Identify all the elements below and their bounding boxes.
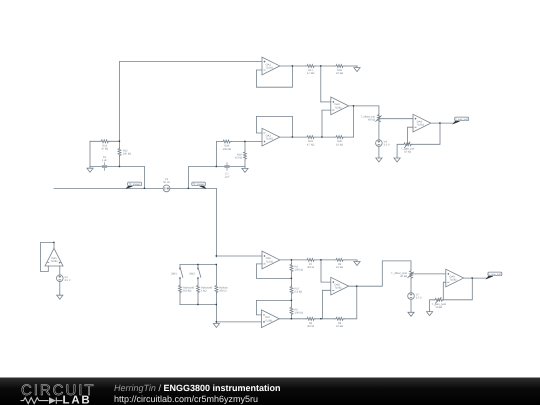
ground — [242, 167, 248, 173]
switch SW2 — [197, 265, 199, 268]
node OA9 output feedback — [472, 277, 473, 278]
resistor R8 — [335, 317, 344, 320]
resistor R9 — [335, 258, 344, 261]
wire buffer2 input — [245, 141, 262, 143]
node R6-R8 to OA8 inverting — [320, 318, 321, 319]
svg-text:1 μF: 1 μF — [102, 159, 108, 162]
wire opC output — [349, 261, 411, 286]
svg-text:http://circuitlab.com/cr5mh6yz: http://circuitlab.com/cr5mh6yzmy5ru — [114, 394, 258, 404]
svg-text:SW2: SW2 — [189, 273, 195, 276]
wire output buffer2 — [280, 136, 306, 138]
wire — [90, 140, 120, 142]
label OA8 — [334, 284, 342, 290]
svg-text:HerringTin / ENGG3800 instrume: HerringTin / ENGG3800 instrumentation — [114, 383, 280, 393]
resistor R29 vertical — [244, 151, 247, 160]
wire junction down to opC plus — [321, 260, 331, 282]
node right RC ground rail — [216, 166, 217, 167]
node OA7 output — [291, 318, 292, 319]
label SW2 — [189, 273, 195, 276]
node bridge top rail right — [216, 264, 217, 265]
svg-text:10 kΩ: 10 kΩ — [336, 325, 343, 328]
wire output B — [279, 318, 306, 320]
wire rail down to bridge — [215, 188, 217, 257]
flag V_amp_out1 — [454, 117, 469, 123]
wire pot left to ground — [430, 300, 435, 310]
label R27 — [295, 288, 303, 294]
node OA3 output feedback — [353, 105, 354, 106]
right RC network wire — [216, 141, 245, 143]
node OA7 feedback — [291, 300, 292, 301]
svg-text:50 Hz: 50 Hz — [163, 181, 170, 184]
wire feedback A — [256, 264, 291, 279]
wire to ground — [344, 65, 357, 67]
wire opD minus — [443, 282, 446, 300]
wire op5 output up to rail — [53, 243, 55, 249]
resistor R5 — [291, 300, 293, 306]
label OA3 — [334, 103, 342, 109]
wire — [119, 141, 121, 166]
resistor R3 branch — [215, 265, 217, 285]
node right RC input — [244, 141, 245, 142]
resistor R19 — [306, 136, 315, 139]
ground — [394, 156, 400, 162]
label V7 — [416, 293, 422, 299]
wire opC minus down — [322, 290, 330, 319]
wire branch verticals — [179, 265, 181, 268]
svg-text:10 kΩ: 10 kΩ — [404, 151, 411, 154]
resistor R6 — [306, 317, 315, 320]
node bridge ground to OA7 — [216, 321, 217, 322]
node OA8 output feedback — [356, 285, 357, 286]
svg-text:TL081: TL081 — [266, 138, 274, 141]
op-amp OA3 diff — [331, 97, 349, 115]
main rail — [54, 187, 216, 189]
label R29 — [235, 154, 242, 160]
net flags — [126, 117, 502, 278]
potentiometer T_offset_pot — [376, 114, 382, 123]
svg-text:47 kΩ: 47 kΩ — [101, 148, 108, 151]
wire pot bottom to source — [378, 123, 380, 140]
wire — [315, 136, 335, 138]
svg-text:100 kΩ: 100 kΩ — [295, 312, 303, 315]
svg-text:TL081: TL081 — [417, 124, 425, 127]
wire op5 plus down — [59, 266, 61, 275]
label OA2 — [266, 134, 274, 140]
wire rail — [189, 166, 246, 168]
component labels (tiny) — [50, 63, 457, 328]
ground — [354, 66, 360, 72]
label V4 — [384, 141, 390, 147]
wire feedback buffer1 — [256, 66, 292, 87]
node left RC input — [119, 141, 120, 142]
label R5 — [295, 308, 303, 314]
node bridge top rail mid — [197, 264, 198, 265]
wire vertical — [215, 142, 217, 167]
svg-text:100 kΩ: 100 kΩ — [223, 148, 231, 151]
svg-text:V_amp_out2: V_amp_out2 — [488, 273, 502, 276]
label Rphoto1 — [183, 287, 195, 293]
wire feedback buffer2 — [256, 116, 292, 137]
ground — [427, 310, 433, 316]
node OA6 feedback — [291, 278, 292, 279]
ground — [87, 167, 93, 173]
wire feedback B — [256, 300, 291, 315]
source V4 — [376, 140, 383, 147]
svg-text:450 kΩ: 450 kΩ — [183, 290, 191, 293]
svg-text:LAB: LAB — [63, 395, 92, 405]
node bridge top to OA6 — [216, 255, 217, 256]
node buffer1 output — [292, 65, 293, 66]
node OA5 output — [53, 242, 54, 243]
resistor R17 — [306, 65, 315, 68]
svg-text:100 kΩ: 100 kΩ — [123, 153, 131, 156]
wire rail — [90, 166, 145, 168]
svg-text:2.5 V: 2.5 V — [416, 297, 422, 300]
node bridge bottom rail mid — [197, 304, 198, 305]
svg-text:40 kΩ: 40 kΩ — [400, 275, 407, 278]
wire up to op3 output — [344, 106, 353, 137]
capacitor C7 — [225, 163, 230, 171]
flag TP2 — [192, 182, 206, 188]
wire rail down — [188, 167, 190, 189]
wire — [244, 142, 246, 167]
potentiometer T_gain_pot — [403, 141, 412, 147]
node R7-R9 to OA8 noninverting — [320, 259, 321, 260]
capacitor C5 — [102, 163, 107, 171]
resistor R20 — [335, 136, 344, 139]
label OA1 — [266, 63, 274, 69]
wire pot tap to op4 — [381, 118, 414, 120]
wire junction down to op3 plus — [320, 66, 322, 102]
svg-text:TL081: TL081 — [265, 319, 273, 322]
wire opD output — [464, 277, 487, 279]
svg-text:4.7 kΩ: 4.7 kΩ — [307, 143, 315, 146]
svg-text:450 Ω: 450 Ω — [219, 290, 226, 293]
svg-text:300 Ω: 300 Ω — [307, 266, 314, 269]
wire op4 minus — [408, 127, 413, 144]
label OA6 — [266, 257, 274, 263]
logo resistor-diode glyph — [21, 397, 63, 404]
op-amp OA1 buffer1 — [262, 57, 280, 75]
label T_offset_pot2 — [391, 272, 407, 278]
resistor R27 gain — [291, 278, 293, 285]
svg-text:1 kΩ: 1 kΩ — [201, 290, 206, 293]
flag V_amp_out2 — [487, 272, 502, 278]
svg-text:TL081: TL081 — [266, 260, 274, 263]
wire left vertical to RC — [119, 62, 121, 142]
svg-text:10 kΩ: 10 kΩ — [435, 306, 442, 309]
wire op3 plus input — [321, 101, 331, 103]
wire bridge to opB plus — [216, 321, 261, 323]
op-amp OA2 buffer2 — [262, 128, 280, 146]
resistor Rphoto1 — [179, 284, 182, 293]
wire — [378, 146, 380, 156]
wire bridge to opA plus — [216, 255, 262, 257]
footer bar — [0, 378, 540, 405]
wire op4 output — [431, 122, 454, 124]
svg-text:4.7 kΩ: 4.7 kΩ — [307, 72, 315, 75]
wire — [315, 318, 335, 320]
resistor R26 horizontal — [100, 140, 109, 143]
label R25 — [123, 150, 131, 156]
svg-text:TL081: TL081 — [266, 67, 274, 70]
label V2 — [65, 276, 71, 282]
wire op3 output — [349, 105, 379, 107]
op-amp OA7 B — [262, 310, 280, 328]
label Rphoto2 — [201, 287, 213, 293]
label OA4 — [417, 120, 425, 126]
wire down to pot — [378, 106, 380, 114]
potentiometer T_offset_pot2 — [408, 270, 414, 279]
op-amp OA8 C diff — [331, 277, 349, 295]
svg-text:100 kΩ: 100 kΩ — [295, 269, 303, 272]
wire buffer1 input long horizontal — [120, 61, 263, 63]
svg-text:TP_bridge1: TP_bridge1 — [129, 183, 142, 186]
wire pot bottom to source — [410, 279, 412, 293]
svg-text:300 Ω: 300 Ω — [307, 325, 314, 328]
source V1 — [163, 185, 170, 192]
wire left down — [89, 141, 91, 166]
ground — [213, 322, 219, 328]
label OA9 — [449, 275, 457, 281]
resistor R18 — [335, 65, 344, 68]
wire — [59, 282, 61, 294]
label T_offset_pot — [361, 116, 376, 122]
wire pot left to ground — [397, 144, 403, 156]
svg-text:10 kΩ: 10 kΩ — [336, 266, 343, 269]
svg-text:47 kΩ: 47 kΩ — [235, 157, 242, 160]
node R19-R20 to OA3 inverting — [321, 136, 322, 137]
resistor Rphoto2 — [197, 284, 200, 293]
op-amp +/- markers — [47, 61, 449, 323]
wire bridge top left rail — [180, 264, 216, 266]
ground — [354, 260, 360, 266]
wire op3 minus input — [322, 110, 331, 137]
resistor R28 horizontal — [222, 140, 231, 143]
svg-text:10 kΩ: 10 kΩ — [336, 72, 343, 75]
label OA7 — [265, 316, 273, 322]
wire output buffer1 — [280, 65, 306, 67]
svg-text:TL081: TL081 — [334, 106, 342, 109]
svg-text:1 μF: 1 μF — [224, 176, 230, 179]
node bridge bottom rail right — [216, 304, 217, 305]
wire output A — [280, 259, 306, 261]
wire feedback D — [443, 278, 472, 300]
resistor R4 — [291, 260, 293, 263]
op-amp OA9 D — [446, 269, 464, 287]
svg-text:40 kΩ: 40 kΩ — [368, 119, 375, 122]
svg-text:SW1: SW1 — [171, 273, 177, 276]
wire down to main rail — [144, 167, 146, 189]
svg-text:10 kΩ: 10 kΩ — [336, 143, 343, 146]
node rail to left RC — [144, 188, 145, 189]
flag TP1 — [126, 182, 141, 188]
potentiometer T_gain_pot2 — [434, 297, 443, 303]
op-amp OA6 A — [262, 251, 280, 269]
node rail to right RC — [188, 188, 189, 189]
source V7 — [408, 293, 415, 300]
resistor R25 vertical — [118, 147, 121, 156]
wire — [410, 299, 412, 311]
label R4 — [295, 265, 303, 271]
label SW1 — [171, 273, 177, 276]
wire top line resistor R7 — [306, 258, 315, 261]
wire — [315, 65, 335, 67]
op-amp OA4 output stage — [413, 114, 431, 132]
svg-text:TL081: TL081 — [334, 287, 342, 290]
svg-text:2.5 V: 2.5 V — [65, 279, 71, 282]
source V2 — [57, 275, 64, 282]
node OA4 output feedback — [439, 122, 440, 123]
op-amp OA5 reference buffer — [45, 248, 63, 266]
wire pot right to feedback — [412, 123, 440, 144]
svg-text:TL081: TL081 — [50, 260, 58, 263]
node R17-R18 to OA3 noninverting — [320, 65, 321, 66]
svg-text:TL081: TL081 — [449, 279, 457, 282]
svg-text:V_amp_out1: V_amp_out1 — [455, 118, 469, 121]
node buffer2 output — [292, 136, 293, 137]
svg-text:2.5 V: 2.5 V — [384, 144, 390, 147]
ground — [408, 311, 414, 317]
svg-text:6.8 kΩ: 6.8 kΩ — [295, 291, 303, 294]
node left RC ground rail — [119, 166, 120, 167]
ground — [376, 156, 382, 162]
ground — [57, 294, 63, 300]
label R3 — [219, 287, 228, 293]
wire to fb vertical — [344, 286, 357, 319]
svg-text:TP_bridge2: TP_bridge2 — [193, 183, 206, 186]
node OA6 output — [291, 259, 292, 260]
switch SW1 — [179, 268, 183, 279]
wire down to ground — [215, 305, 217, 322]
wire feedback op5 — [41, 243, 55, 272]
wire bridge bottom rail — [180, 304, 216, 306]
wire pot tap to opD — [413, 273, 446, 275]
